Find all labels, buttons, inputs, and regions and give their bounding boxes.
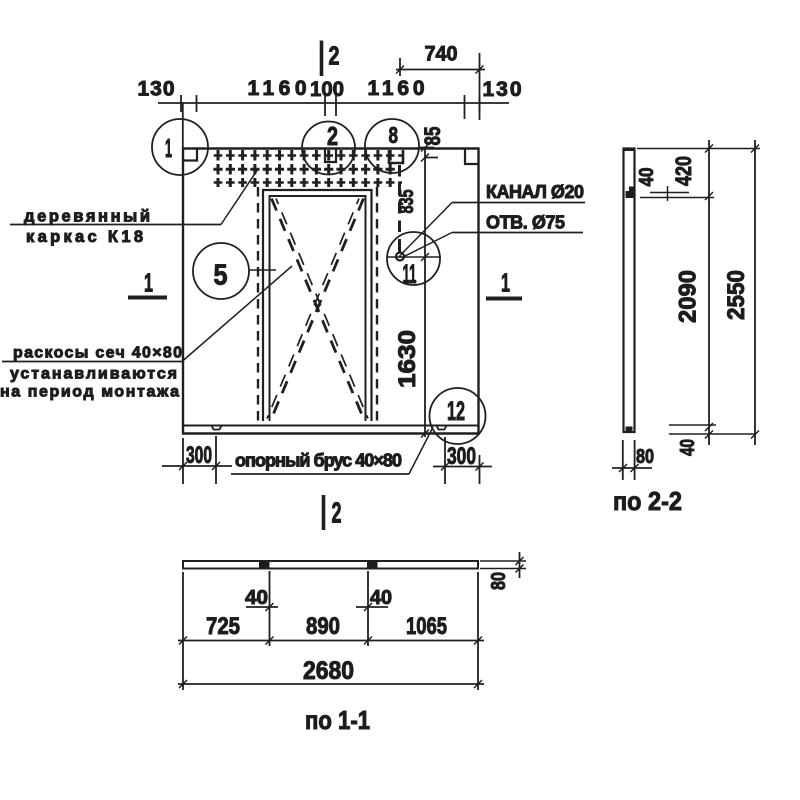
740 extension right long (479, 53, 481, 120)
leader раскосы (182, 266, 292, 362)
2-2 40 small extension (650, 192, 689, 194)
channel dashed vertical line (398, 165, 401, 252)
svg-text:740: 740 (425, 43, 458, 66)
1-1 small 40 dim lines (246, 606, 388, 608)
section mark 2 bottom line (322, 495, 326, 530)
2-2 bottom 80 dim line (612, 467, 652, 469)
dashed jamb line right (376, 187, 378, 421)
hole axis line (387, 256, 441, 258)
wooden frame band: column stems row2 (218, 164, 390, 175)
svg-text:8: 8 (389, 122, 399, 148)
svg-text:опорный брус 40×80: опорный брус 40×80 (235, 451, 402, 471)
2-2 bottom 80 extensions (623, 440, 635, 480)
bottom 300 left: extensions (183, 436, 216, 484)
svg-text:80: 80 (636, 446, 654, 468)
dashed jamb line left (257, 187, 259, 421)
svg-text:300: 300 (186, 442, 212, 469)
2-2 bottom blob (626, 427, 633, 432)
svg-text:2680: 2680 (303, 657, 354, 685)
svg-text:раскосы сеч 40×80: раскосы сеч 40×80 (13, 345, 182, 362)
brace X diagonal B dashed (272, 199, 364, 419)
bottom 300 left: slashes (179, 462, 220, 470)
callout circle 2 (302, 122, 355, 175)
wooden frame band: middle crosses (213, 168, 394, 171)
svg-text:40: 40 (677, 439, 699, 456)
2-2 bar outline (624, 149, 635, 433)
hole ОТВ 75 small circle (396, 253, 404, 261)
svg-text:1160: 1160 (248, 77, 307, 100)
wooden frame band: dashed row top (214, 154, 402, 157)
underline раскосы (2, 361, 182, 363)
svg-text:каркас К18: каркас К18 (26, 228, 143, 246)
svg-text:835: 835 (396, 190, 418, 214)
2-2 top extension line (637, 148, 760, 150)
wooden frame band: column stems row1 (218, 150, 390, 161)
section mark 1 left line (128, 296, 167, 300)
top dimension line (158, 102, 509, 104)
svg-text:по 1-1: по 1-1 (305, 705, 370, 735)
svg-text:2: 2 (327, 121, 338, 151)
svg-text:1: 1 (165, 133, 172, 163)
leader ОТВ (402, 233, 452, 258)
leader опорный (409, 427, 433, 474)
vertical dim line 85/835/1630 (424, 147, 426, 437)
panel bottom band line (183, 425, 479, 427)
svg-text:деревянный: деревянный (24, 208, 150, 226)
svg-text:890: 890 (306, 613, 340, 640)
2-2 top cap thick (623, 148, 635, 151)
svg-text:1: 1 (144, 268, 153, 298)
1-1 right 80 extensions (480, 561, 526, 569)
740 slashes (396, 66, 484, 74)
1-1 small 40 slashes (266, 603, 373, 611)
1-1 extension lines mid (270, 571, 369, 646)
1-1 block 2 (367, 562, 378, 569)
2-2 bottom extension 2090 (669, 424, 716, 426)
callout circle 1 (152, 119, 208, 175)
top dim ticks (181, 95, 480, 119)
brace X diagonal A dashed (272, 199, 364, 419)
underline КАНАЛ (452, 202, 585, 204)
leader деревянный (221, 169, 258, 225)
underline ОТВ (452, 232, 583, 234)
1-1 dim line 2680 (178, 683, 484, 685)
2-2 bottom 80 slashes (619, 464, 639, 472)
2-2 dim ticks on 755 (751, 145, 759, 439)
2-2 small 40 dim vertical (667, 186, 669, 201)
door opening inner frame (270, 196, 366, 421)
2-2 dim line 2550 (754, 140, 756, 445)
brace X diagonal A second dashed (276, 199, 368, 419)
extension: left edge up to dim (182, 103, 184, 148)
bottom band notch right (437, 426, 447, 430)
svg-text:2090: 2090 (675, 270, 702, 323)
svg-text:40: 40 (370, 587, 392, 609)
bottom 300 right: slashes (441, 463, 484, 471)
top-middle notch (100 jamb) (325, 149, 336, 162)
1-1 extension lines long (183, 572, 478, 690)
svg-text:725: 725 (206, 613, 240, 640)
svg-text:2: 2 (332, 498, 342, 530)
svg-text:130: 130 (138, 78, 175, 101)
svg-text:по 2-2: по 2-2 (613, 486, 682, 516)
brace X diagonal B second dashed (267, 199, 359, 419)
wooden frame band: column stems row3 (218, 178, 390, 187)
svg-text:40: 40 (636, 168, 658, 187)
bottom 300 left: dim line (162, 465, 232, 467)
svg-text:100: 100 (310, 78, 344, 101)
1-1 dim line 725/890/1065 (178, 640, 484, 642)
svg-text:130: 130 (483, 78, 522, 101)
740 dim line (396, 69, 485, 71)
channel U-bend at band right end (389, 150, 403, 163)
top-left corner notch (184, 149, 198, 161)
1-1 block 1 (259, 562, 270, 569)
1-1 bar outline (183, 561, 478, 569)
door opening outer frame (263, 190, 372, 421)
svg-text:КАНАЛ Ø20: КАНАЛ Ø20 (486, 182, 584, 202)
svg-text:1: 1 (501, 268, 510, 298)
callout circle 8 (365, 119, 419, 173)
underline деревянный (10, 224, 221, 226)
bottom 300 right: extensions (445, 437, 480, 484)
1-1 dim slashes (179, 637, 482, 645)
callout 5 leader (249, 269, 276, 271)
svg-text:80: 80 (488, 572, 510, 590)
vertical dim ticks (419, 148, 438, 434)
leader КАНАЛ (401, 203, 453, 256)
2-2 dim line 420/2090 (708, 140, 710, 445)
2-2 bottom extension 2550 (669, 433, 756, 435)
panel outline (183, 149, 479, 434)
callout circle 12 (430, 388, 486, 444)
1-1 right 80 dim line (519, 552, 521, 578)
vertical dim slashes (421, 144, 429, 438)
callout circle 11 (387, 232, 440, 285)
2-2 frame element black block (626, 187, 635, 199)
top-right corner notch (465, 149, 478, 164)
2-2 420 tick extension (640, 197, 714, 199)
bottom band notch left (212, 426, 222, 430)
740 extension left (399, 58, 401, 76)
svg-text:устанавливаются: устанавливаются (10, 366, 177, 383)
1-1 right 80 slashes (516, 557, 524, 573)
hole center dot (399, 255, 402, 258)
svg-text:на период монтажа: на период монтажа (0, 384, 179, 401)
wooden frame band: dashed row bottom (214, 181, 402, 184)
svg-text:300: 300 (447, 443, 476, 470)
svg-text:1630: 1630 (394, 330, 421, 388)
section mark 1 right line (486, 297, 522, 301)
svg-text:40: 40 (245, 587, 268, 609)
svg-text:12: 12 (447, 396, 465, 426)
2-2 block white notch (626, 187, 630, 192)
2-2 dim ticks on 709 (705, 145, 713, 439)
svg-text:1065: 1065 (406, 613, 447, 640)
svg-text:ОТВ. Ø75: ОТВ. Ø75 (486, 213, 565, 233)
section mark 2 top line (320, 41, 324, 77)
svg-text:5: 5 (214, 260, 228, 292)
underline опорный (231, 473, 409, 475)
svg-text:420: 420 (671, 156, 696, 186)
1-1 2680 slashes (179, 680, 482, 688)
svg-text:11: 11 (403, 259, 417, 289)
svg-text:85: 85 (420, 127, 445, 146)
svg-text:2: 2 (329, 41, 340, 71)
callout circle 5 (193, 243, 249, 299)
svg-text:2550: 2550 (723, 270, 750, 320)
svg-text:1160: 1160 (368, 77, 425, 100)
bottom 300 right: dim line (433, 466, 492, 468)
